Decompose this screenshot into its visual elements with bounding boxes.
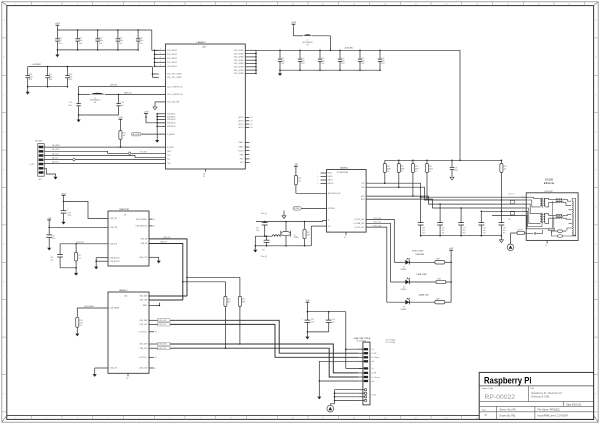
wire (280, 69, 380, 71)
svg-text:6V3: 6V3 (79, 43, 82, 45)
svg-text:GREEN: GREEN (401, 289, 408, 291)
svg-text:49R9: 49R9 (415, 168, 419, 170)
resistor R23 49R9 (411, 160, 418, 197)
svg-text:6V3: 6V3 (321, 63, 324, 65)
svg-text:VDD_3V3A3: VDD_3V3A3 (234, 56, 244, 59)
svg-text:+1V8 SMC: +1V8 SMC (32, 64, 42, 66)
svg-text:10n: 10n (483, 230, 486, 232)
svg-text:6V3: 6V3 (49, 79, 52, 81)
capacitor C10 (55, 30, 62, 51)
svg-text:220u: 220u (68, 215, 72, 217)
svg-text:11: 11 (322, 418, 324, 420)
svg-text:10k: 10k (298, 181, 301, 183)
svg-text:SP_TMS: SP_TMS (140, 151, 146, 153)
svg-text:Drawn By: PBL: Drawn By: PBL (500, 415, 517, 418)
capacitor C44 (508, 194, 514, 204)
svg-text:SA_TMS: SA_TMS (52, 148, 60, 151)
svg-text:VDD_IN3/E5: VDD_IN3/E5 (167, 58, 177, 60)
resistor R18 (RBIAS) (76, 305, 108, 334)
svg-text:10n: 10n (503, 230, 506, 232)
svg-text:C44 1nF: C44 1nF (508, 194, 514, 196)
svg-text:R20: R20 (307, 232, 310, 234)
svg-text:49R9: 49R9 (401, 168, 405, 170)
ground (157, 261, 161, 264)
svg-text:USB_RBIAS: USB_RBIAS (110, 307, 121, 310)
svg-text:100M '100': 100M '100' (419, 294, 430, 296)
svg-text:EEDI: EEDI (328, 173, 333, 175)
wire FDX_LED (366, 218, 394, 262)
svg-text:VDD33IO2: VDD33IO2 (167, 116, 175, 118)
wire TXN (366, 187, 521, 200)
svg-text:TJ: TJ (545, 245, 547, 247)
svg-text:USB_TX0: USB_TX0 (110, 218, 118, 220)
wire USB_DM3 pair (149, 342, 358, 373)
svg-text:Vcc: Vcc (371, 368, 374, 370)
svg-text:C32: C32 (332, 319, 335, 321)
ground (93, 374, 97, 377)
wire (153, 102, 166, 110)
svg-text:1u0: 1u0 (121, 105, 124, 107)
svg-text:Date 5NOV12: Date 5NOV12 (566, 403, 582, 406)
ground (94, 267, 98, 270)
svg-text:100n: 100n (52, 238, 56, 240)
svg-text:AUTOMDIX_EN: AUTOMDIX_EN (328, 192, 341, 195)
ground (155, 140, 159, 143)
svg-text:6V3: 6V3 (301, 63, 304, 65)
svg-text:8: 8 (231, 4, 232, 6)
svg-text:100n: 100n (68, 105, 72, 107)
svg-text:10n: 10n (442, 230, 445, 232)
wire (183, 277, 240, 282)
connector J1 RJ45 magjack (521, 178, 578, 248)
resistor for D3 (435, 299, 451, 304)
ground (analog) (450, 177, 454, 180)
capacitor C40 (437, 203, 445, 236)
svg-text:4: 4 (108, 4, 109, 6)
svg-text:J: J (4, 356, 5, 358)
svg-text:SA_TDO: SA_TDO (52, 161, 60, 164)
wire (307, 311, 345, 313)
svg-text:43: 43 (344, 237, 346, 239)
svg-text:USB_DP3: USB_DP3 (158, 348, 166, 350)
svg-text:C43: C43 (503, 228, 506, 230)
svg-text:49R9: 49R9 (429, 168, 433, 170)
svg-text:R21: R21 (387, 166, 390, 168)
capacitor C15 (136, 29, 143, 51)
node N_FCTN_2 (149, 332, 157, 334)
wire center taps (481, 211, 521, 215)
capacitor C38 (450, 160, 458, 176)
svg-text:USB_DP0: USB_DP0 (140, 300, 148, 302)
svg-text:USB_RST: USB_RST (76, 242, 85, 244)
wire ground of J5 (44, 168, 57, 179)
wire (156, 113, 165, 140)
node EXTRES (293, 207, 327, 211)
svg-text:18: 18 (538, 4, 540, 6)
svg-text:VDD_1V8_CORE1: VDD_1V8_CORE1 (167, 74, 182, 76)
capacitor C22 (298, 50, 305, 71)
svg-text:LAN9512: LAN9512 (340, 167, 349, 170)
svg-text:43: 43 (203, 173, 205, 175)
capacitor C14 (116, 29, 123, 51)
svg-text:J: J (596, 356, 597, 358)
node N_FCTN_3 (149, 357, 157, 359)
wire SA_NRST (44, 144, 165, 148)
svg-text:6V3: 6V3 (341, 63, 344, 65)
svg-text:USB_DP2: USB_DP2 (140, 324, 148, 326)
capacitor C36 (50, 244, 63, 268)
svg-text:EECLK: EECLK (328, 183, 334, 185)
svg-text:LAN9512: LAN9512 (197, 41, 207, 44)
svg-text:USB_DP2: USB_DP2 (158, 324, 166, 326)
ground (74, 273, 78, 276)
ground (61, 222, 65, 225)
ground (analog) (499, 236, 503, 243)
svg-text:LINK 'LNK': LINK 'LNK' (417, 274, 428, 276)
wire (149, 296, 187, 300)
resistor R14 (118, 117, 125, 147)
svg-text:10/100: 10/100 (545, 178, 554, 182)
net +3V3_AN rail (256, 46, 460, 160)
svg-text:VDD33IO3: VDD33IO3 (167, 119, 175, 121)
svg-text:18p: 18p (256, 230, 259, 232)
resistor R19 (294, 164, 327, 193)
capacitor C16 (25, 67, 32, 88)
capacitor C33 (polarized) (61, 208, 72, 221)
svg-text:VDD_3V3A1: VDD_3V3A1 (234, 49, 244, 52)
op: IC U2A LAN9512 (159, 41, 254, 178)
svg-text:USB_DP: USB_DP (141, 243, 149, 245)
svg-text:U5: U5 (124, 214, 126, 216)
svg-text:8: 8 (231, 418, 232, 420)
svg-text:GPIO0: GPIO0 (238, 117, 243, 119)
svg-text:USB_DM2: USB_DM2 (139, 320, 147, 322)
svg-text:C42: C42 (483, 228, 486, 230)
resistor R21 49R9 (383, 160, 390, 184)
resistor R26 0R (511, 230, 527, 235)
svg-text:4: 4 (108, 418, 109, 420)
connector J2 dual USB type A (354, 337, 396, 405)
svg-text:14: 14 (415, 418, 417, 420)
svg-text:2: 2 (46, 4, 47, 6)
capacitor C26 (378, 50, 385, 71)
svg-text:25MHz: 25MHz (294, 237, 299, 239)
svg-text:3: 3 (77, 4, 78, 6)
svg-text:I2C EEPROM: I2C EEPROM (337, 172, 349, 174)
capacitor C25 (358, 50, 365, 71)
svg-text:RP-00022: RP-00022 (485, 394, 516, 401)
wire VBUS (345, 312, 363, 369)
resistor R22 49R9 (397, 160, 404, 188)
svg-text:USB2512B: USB2512B (119, 209, 130, 211)
wire SPD_LED (366, 225, 387, 302)
wire SA_TMS (44, 148, 165, 155)
svg-text:D- USB: D- USB (371, 373, 376, 375)
svg-text:6V3: 6V3 (29, 79, 32, 81)
svg-text:VDD33IO4: VDD33IO4 (167, 123, 175, 125)
wire (60, 267, 77, 273)
net USB_PLL / ferrite L2 (79, 93, 166, 105)
svg-text:USB_ACKD1: USB_ACKD1 (110, 256, 120, 259)
svg-text:13: 13 (384, 4, 386, 6)
svg-text:EXTRES: EXTRES (328, 208, 336, 210)
wire (307, 331, 329, 337)
svg-text:5V TO 5V(A): 5V TO 5V(A) (386, 338, 396, 341)
svg-text:2: 2 (46, 418, 47, 420)
svg-text:GPIO2: GPIO2 (238, 124, 243, 126)
svg-text:CLK24: CLK24 (238, 150, 243, 152)
svg-text:Gnd: Gnd (371, 361, 374, 363)
svg-text:USB_DM: USB_DM (140, 239, 148, 241)
svg-text:X1: X1 (294, 235, 296, 237)
svg-text:N_SPD_LED: N_SPD_LED (354, 227, 365, 229)
wire USB_DP2 pair (149, 323, 358, 358)
svg-text:10k: 10k (123, 135, 126, 137)
svg-text:USB_PLL: USB_PLL (124, 93, 132, 95)
svg-text:N_FDX_LED: N_FDX_LED (355, 219, 366, 221)
svg-text:49R9: 49R9 (387, 168, 391, 170)
svg-text:VDD_3V3A6: VDD_3V3A6 (234, 66, 244, 69)
capacitor C39 (418, 196, 426, 236)
wire termination rail (385, 160, 502, 162)
svg-text:USB_DM2: USB_DM2 (158, 320, 166, 322)
svg-text:VDD_DNC_TAP: VDD_DNC_TAP (167, 101, 180, 104)
net 1V8_PLL (79, 85, 166, 87)
wire USB_DP (149, 242, 184, 301)
resistor R24 49R9 (425, 160, 432, 200)
svg-text:J7: J7 (154, 226, 156, 228)
svg-text:8R0: 8R0 (242, 301, 245, 303)
svg-text:VDD_3V3A8: VDD_3V3A8 (234, 72, 244, 75)
svg-text:USB_RST: USB_RST (110, 244, 119, 246)
svg-text:N_FCTN_3: N_FCTN_3 (139, 357, 148, 359)
svg-text:SK1: SK1 (39, 179, 42, 181)
wire RXP (366, 196, 521, 204)
resistor R17 (75, 244, 82, 268)
svg-text:N_FCTN_2: N_FCTN_2 (139, 332, 148, 334)
svg-text:Raspberry Pi - Revision 2.0: Raspberry Pi - Revision 2.0 (532, 392, 563, 395)
svg-text:C21: C21 (256, 228, 259, 230)
crystal X1 circuit (255, 211, 327, 258)
ground (253, 250, 257, 253)
wire SA_TCK (44, 152, 165, 157)
wire (28, 86, 68, 88)
svg-text:Gnd: Gnd (371, 381, 374, 383)
svg-text:D1: D1 (403, 267, 405, 269)
svg-text:VDD33IO5: VDD33IO5 (167, 126, 175, 128)
svg-text:USB_DM3: USB_DM3 (158, 344, 166, 346)
svg-text:USB_DM0: USB_DM0 (139, 296, 147, 298)
svg-text:N_LNKA_LED: N_LNKA_LED (354, 222, 366, 225)
svg-text:10n: 10n (422, 230, 425, 232)
svg-text:7: 7 (200, 418, 201, 420)
chassis ground (shield) (327, 405, 334, 412)
ferrite bead L1 (291, 22, 331, 51)
svg-text:10: 10 (292, 4, 294, 6)
svg-text:10: 10 (292, 418, 294, 420)
svg-text:USB_STB: USB_STB (110, 227, 119, 229)
svg-text:C22: C22 (262, 250, 265, 252)
svg-text:6V3: 6V3 (119, 43, 122, 45)
ground (47, 248, 51, 251)
svg-text:R22: R22 (401, 166, 404, 168)
ground (77, 115, 81, 122)
svg-text:15: 15 (445, 418, 447, 420)
svg-text:Sheet: 43 of 45: Sheet: 43 of 45 (500, 409, 517, 412)
wire (78, 114, 119, 116)
capacitor C23 (318, 50, 325, 71)
capacitor C13 (95, 29, 102, 51)
svg-text:VDD_CORETH_PLL: VDD_CORETH_PLL (167, 86, 183, 88)
svg-text:1: 1 (15, 418, 16, 420)
svg-text:C45: C45 (508, 219, 511, 221)
svg-text:D3: D3 (403, 307, 405, 309)
svg-text:7: 7 (200, 4, 201, 6)
svg-text:1M0: 1M0 (307, 234, 310, 236)
svg-text:PR-3 SKU: PR-3 SKU (35, 141, 43, 143)
capacitor C45 (508, 212, 514, 221)
svg-text:SA_TCK: SA_TCK (52, 152, 60, 155)
svg-text:1: 1 (15, 4, 16, 6)
ground (55, 50, 59, 57)
connector J5 (JTAG header) (30, 141, 44, 182)
svg-text:VDD_IN1/E5: VDD_IN1/E5 (167, 50, 177, 52)
svg-text:Project Code: Project Code (482, 387, 494, 390)
svg-text:6V3: 6V3 (139, 43, 142, 45)
svg-text:6V3: 6V3 (381, 63, 384, 65)
power net +1V8 (47, 218, 51, 235)
svg-text:R26 0R: R26 0R (518, 230, 524, 232)
capacitor C12 (75, 29, 82, 51)
svg-text:USB_RBIAS: USB_RBIAS (84, 305, 95, 308)
svg-text:LAN9512: LAN9512 (119, 289, 128, 292)
svg-text:VDD_3V3A2: VDD_3V3A2 (234, 52, 244, 55)
capacitor C24 (338, 50, 345, 71)
svg-text:D2: D2 (403, 286, 405, 288)
svg-text:6V3: 6V3 (361, 63, 364, 65)
svg-text:47k: 47k (78, 258, 81, 260)
svg-text:VDD_3V3A4: VDD_3V3A4 (234, 59, 244, 62)
svg-text:J6: J6 (154, 219, 156, 221)
wire (78, 87, 120, 96)
ground (305, 337, 309, 340)
svg-text:NC1: NC1 (240, 162, 243, 164)
capacitor C17 (45, 66, 52, 88)
svg-text:9: 9 (261, 418, 262, 420)
power net +5V (61, 193, 67, 210)
svg-text:+3V3_AN: +3V3_AN (344, 46, 353, 49)
svg-text:10k: 10k (504, 168, 507, 170)
svg-text:XTAL2: XTAL2 (238, 146, 243, 149)
svg-text:VDD_IN4/E5: VDD_IN4/E5 (167, 62, 177, 64)
wire TXP (366, 183, 521, 197)
svg-text:9: 9 (261, 4, 262, 6)
svg-text:19: 19 (568, 4, 570, 6)
svg-text:5V TO 5V(B): 5V TO 5V(B) (386, 342, 396, 344)
wire RXN (366, 199, 521, 208)
capacitor C20 (116, 94, 123, 115)
svg-text:L/GA_ON: L/GA_ON (110, 367, 118, 370)
svg-text:D- USB: D- USB (371, 353, 376, 355)
svg-text:220u: 220u (311, 322, 315, 324)
capacitor C32 (326, 312, 335, 332)
ground (317, 397, 321, 400)
wire USB_DM2 pair (149, 319, 358, 354)
svg-text:EXTRES: EXTRES (294, 208, 300, 210)
svg-text:Note (1): Note (1) (261, 212, 267, 215)
svg-text:11: 11 (322, 4, 324, 6)
resistor R15 (238, 277, 245, 345)
svg-text:16: 16 (476, 4, 478, 6)
svg-text:VDD_1V8_CORE2: VDD_1V8_CORE2 (167, 77, 182, 79)
svg-text:100n: 100n (454, 170, 458, 172)
wire USB_DP3 pair (149, 347, 358, 378)
svg-text:N_RESET: N_RESET (167, 134, 176, 136)
svg-text:USB_DP3: USB_DP3 (140, 348, 148, 350)
wire shield (330, 390, 359, 405)
capacitor C34 (46, 235, 55, 248)
svg-text:EEDO: EEDO (328, 176, 334, 178)
svg-text:6: 6 (169, 418, 170, 420)
wire SA_TDI (44, 157, 165, 162)
capacitor C41 (458, 207, 466, 236)
svg-text:L/GA_OUT: L/GA_OUT (139, 367, 148, 370)
svg-text:6V3: 6V3 (281, 63, 284, 65)
IC U2B LAN9512 (317, 167, 366, 239)
ground (26, 87, 30, 95)
svg-text:C38: C38 (454, 167, 457, 169)
svg-text:49: 49 (126, 378, 128, 380)
wire (421, 235, 502, 237)
svg-text:GPIO1: GPIO1 (238, 121, 243, 123)
title block (479, 372, 593, 419)
svg-text:8R0: 8R0 (228, 301, 231, 303)
svg-text:VDD_3V3A7: VDD_3V3A7 (234, 69, 244, 72)
svg-text:P3: P3 (155, 357, 157, 359)
power net +5V0 (305, 300, 309, 320)
capacitor C43 (499, 221, 507, 237)
svg-text:FULL 'FDX': FULL 'FDX' (413, 250, 424, 252)
svg-text:USB_DM3: USB_DM3 (139, 344, 147, 346)
svg-text:N_TRST: N_TRST (167, 147, 175, 149)
svg-text:Ethernet: Ethernet (544, 181, 554, 185)
ground (278, 70, 282, 76)
capacitor C21 (278, 50, 285, 71)
svg-text:12: 12 (353, 4, 355, 6)
power net +3V3 (LED) (449, 248, 453, 302)
resistor R16 (224, 282, 231, 349)
wire (152, 30, 159, 67)
power net +3V3 (143, 112, 165, 123)
node L/GA_OUT (149, 368, 157, 370)
resistor R25 10k (500, 160, 507, 221)
LED D3 (387, 294, 435, 311)
svg-text:GREEN: GREEN (401, 309, 408, 311)
chassis ground (507, 233, 514, 251)
svg-text:16: 16 (476, 418, 478, 420)
wire SA_TDO (44, 161, 165, 164)
svg-text:4u7: 4u7 (332, 322, 335, 324)
wire USB_RST (60, 242, 108, 245)
capacitor C35 (polarized) (301, 318, 314, 332)
IC U2C LAN9512 (108, 289, 149, 380)
wire (28, 66, 153, 68)
svg-text:6V3: 6V3 (59, 43, 62, 45)
wire (57, 27, 151, 30)
capacitor C18 (65, 66, 72, 88)
node RREF (149, 303, 160, 307)
svg-text:VDD_3V3A5: VDD_3V3A5 (234, 62, 244, 65)
